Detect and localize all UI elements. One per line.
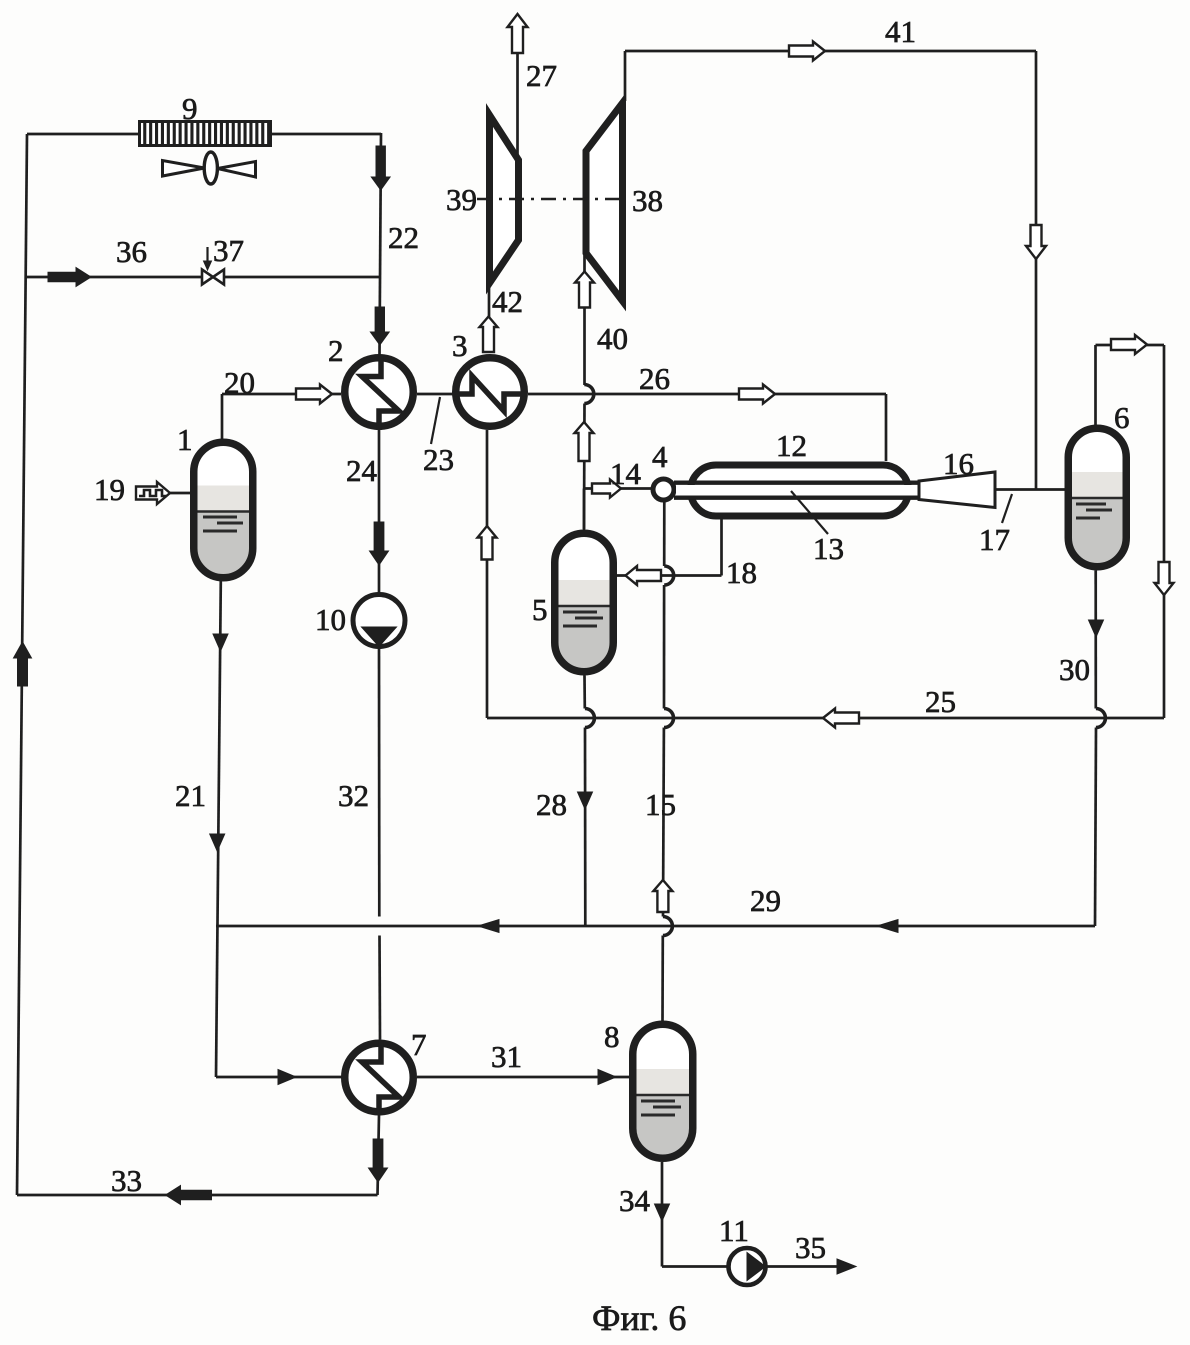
heat exchanger 7 zigzag	[362, 1040, 399, 1115]
wire line 17	[995, 488, 1066, 491]
wire top to condenser 9	[27, 133, 139, 136]
wire between exchangers 2 and 3	[417, 393, 453, 396]
label 23	[423, 442, 454, 477]
svg-text:6: 6	[1114, 400, 1130, 435]
arrow down on line 21 lower	[210, 834, 225, 851]
label 11	[719, 1213, 749, 1248]
wire line 18 (ejector suction)	[617, 516, 722, 576]
arrow left line 25	[823, 709, 859, 728]
hop line 15 over line 25	[664, 709, 674, 728]
svg-text:2: 2	[328, 333, 344, 368]
wire left return riser (33 to condenser 9)	[17, 134, 27, 1195]
arrow left line 29 b	[877, 920, 898, 933]
vessel 6 level dashes	[1076, 504, 1112, 518]
wire line 19	[170, 492, 191, 495]
pump 10	[353, 595, 405, 647]
svg-text:32: 32	[338, 778, 369, 813]
wire line 22 (to heat exchanger 2)	[380, 133, 382, 355]
hop line 15 over line 18	[664, 566, 674, 585]
svg-text:13: 13	[813, 531, 844, 566]
svg-text:17: 17	[979, 522, 1010, 557]
label 34	[619, 1183, 651, 1218]
wire line 35	[765, 1265, 853, 1268]
svg-text:24: 24	[346, 453, 378, 488]
vessel 6 (separator)	[1068, 428, 1126, 567]
label 39	[446, 182, 477, 217]
vessel 1 (separator)	[194, 442, 253, 578]
wire line 36 (bypass)	[26, 276, 380, 279]
wire line 20	[222, 394, 341, 441]
svg-text:7: 7	[411, 1027, 427, 1062]
ejector chamber 12	[691, 465, 909, 516]
svg-text:37: 37	[213, 233, 244, 268]
label 33	[111, 1163, 142, 1198]
label 15	[645, 787, 676, 822]
caption	[592, 1298, 686, 1338]
label 22	[388, 220, 419, 255]
fan of condenser 9	[163, 152, 256, 184]
arrow right vessel 6 top	[1111, 335, 1147, 354]
label 23 leader	[431, 397, 440, 444]
svg-text:Фиг. 6: Фиг. 6	[592, 1298, 686, 1338]
wire line 32 (pump 10 to HX7)	[379, 647, 380, 1040]
arrow up on left riser	[14, 642, 32, 686]
arrow down on line 22 lower	[370, 307, 389, 345]
arrow right line 41	[789, 42, 825, 61]
label 16	[943, 446, 974, 481]
arrow down on line 24	[370, 522, 389, 565]
svg-text:42: 42	[492, 284, 523, 319]
svg-text:36: 36	[116, 234, 147, 269]
label 28	[536, 787, 567, 822]
svg-text:31: 31	[491, 1039, 522, 1074]
label 21	[175, 778, 206, 813]
arrow right into HX7	[278, 1070, 296, 1085]
svg-text:38: 38	[632, 183, 663, 218]
label 31	[491, 1039, 522, 1074]
label 38	[632, 183, 663, 218]
svg-text:3: 3	[452, 328, 468, 363]
label 37	[213, 233, 244, 268]
svg-text:15: 15	[645, 787, 676, 822]
wire line 28 (vessel 5 down)	[583, 676, 586, 927]
ejector mixing tube 13	[674, 483, 919, 498]
shaft line (dash-dot) between turbines 39 and 38	[477, 198, 620, 200]
wire line 33 (HX7 down and left)	[17, 1115, 379, 1195]
wire line 24 (HX2 to pump 10)	[378, 430, 381, 593]
arrow up line 15	[653, 880, 672, 912]
vessel 1 level dashes	[203, 517, 243, 531]
label 26	[639, 361, 670, 396]
arrow up line 42	[480, 317, 498, 353]
label 18	[726, 555, 757, 590]
label 17	[979, 522, 1010, 557]
wire into HX7 from line 21	[216, 1076, 342, 1079]
svg-text:35: 35	[795, 1230, 826, 1265]
svg-text:11: 11	[719, 1213, 749, 1248]
arrow down line 41 riser	[1026, 225, 1046, 259]
label 25	[925, 684, 956, 719]
hop line 30 over line 25	[1096, 709, 1106, 728]
label 41	[885, 14, 916, 49]
svg-text:12: 12	[776, 428, 807, 463]
arrow right line 14	[592, 480, 621, 498]
valve 37	[202, 270, 224, 285]
svg-text:27: 27	[526, 58, 557, 93]
label 5	[532, 592, 548, 627]
label 20	[224, 365, 255, 400]
label 2	[328, 333, 344, 368]
svg-text:10: 10	[315, 602, 346, 637]
svg-text:16: 16	[943, 446, 974, 481]
svg-text:23: 23	[423, 442, 454, 477]
label 14	[610, 456, 642, 491]
svg-text:33: 33	[111, 1163, 142, 1198]
svg-text:8: 8	[604, 1019, 620, 1054]
label 29	[750, 883, 781, 918]
arrow up line 27	[508, 14, 528, 53]
heat exchanger 7	[345, 1043, 414, 1112]
heat exchanger 3 zigzag	[453, 376, 527, 411]
vessel 8 level dashes	[641, 1101, 681, 1115]
condenser 9 (air-cooled, hatched)	[140, 122, 271, 146]
label 30	[1059, 652, 1090, 687]
turbine 39	[490, 115, 519, 283]
label 35	[795, 1230, 826, 1265]
label 6	[1114, 400, 1130, 435]
pump 11	[729, 1248, 766, 1285]
arrow up on HX3 return	[478, 526, 497, 560]
arrow left line 33	[166, 1186, 212, 1205]
arrow down line 28	[578, 792, 593, 809]
svg-text:5: 5	[532, 592, 548, 627]
arrow left line 29 a	[478, 920, 499, 933]
wire line 41 (turbine 38 to vessel 6 side)	[625, 51, 1036, 489]
heat exchanger 2	[345, 358, 414, 427]
wire line 26 (to ejector 12)	[528, 394, 886, 461]
vessel 8 (separator)	[633, 1024, 693, 1158]
hop line 40 over line 26	[584, 385, 594, 404]
label 32	[338, 778, 369, 813]
svg-text:29: 29	[750, 883, 781, 918]
feed arrow 19	[136, 482, 170, 504]
arrow down right riser	[1155, 562, 1174, 595]
wire line 42 (HX3 to turbine 39)	[488, 283, 491, 317]
svg-text:26: 26	[639, 361, 670, 396]
label 12	[776, 428, 807, 463]
svg-text:39: 39	[446, 182, 477, 217]
label 8	[604, 1019, 620, 1054]
svg-text:28: 28	[536, 787, 567, 822]
svg-text:25: 25	[925, 684, 956, 719]
wire line 34	[662, 1162, 728, 1267]
arrow down on line 22 upper	[371, 146, 390, 190]
label 9	[182, 91, 198, 126]
label 1	[177, 422, 193, 457]
svg-text:1: 1	[177, 422, 193, 457]
vessel 5 (separator)	[555, 533, 614, 672]
arrow right on line 26	[739, 385, 775, 404]
wire line 27 (turbine 39 exhaust)	[516, 53, 519, 159]
valve 37 actuator arrow	[204, 247, 212, 270]
hop line 28 over line 25	[585, 709, 595, 728]
vessel 5 level dashes	[563, 612, 603, 626]
svg-text:21: 21	[175, 778, 206, 813]
arrow down on line 21 upper	[213, 634, 228, 651]
arrow down line 34	[655, 1204, 670, 1221]
label 4	[652, 439, 668, 474]
arrow right line 31	[598, 1070, 616, 1085]
wire vessel 6 top loop	[1096, 345, 1165, 718]
arrow right on line 20	[296, 385, 332, 404]
wire line 15	[663, 500, 665, 1021]
svg-text:41: 41	[885, 14, 916, 49]
wire line 25	[487, 717, 1164, 720]
label 36	[116, 234, 147, 269]
svg-text:34: 34	[619, 1183, 651, 1218]
wire line 31 (HX7 to vessel 8)	[417, 1076, 630, 1079]
label 13 leader	[791, 491, 828, 534]
label 42	[492, 284, 523, 319]
wire line 29	[216, 925, 1095, 928]
wire line 21 (vessel 1 down)	[216, 581, 221, 1077]
hop line 15 over line 29	[663, 917, 673, 936]
label 19	[94, 472, 125, 507]
arrow left line 18	[626, 566, 662, 585]
wire line 25 left riser to HX3	[486, 430, 489, 718]
label 24	[346, 453, 378, 488]
arrow right on line 36	[48, 268, 91, 287]
label 10	[315, 602, 346, 637]
svg-text:19: 19	[94, 472, 125, 507]
heat exchanger 3	[456, 358, 525, 427]
ejector diffuser 16	[919, 472, 995, 508]
label 7	[411, 1027, 427, 1062]
label 13	[813, 531, 844, 566]
arrow up line 40 mid	[575, 422, 594, 461]
svg-text:9: 9	[182, 91, 198, 126]
svg-text:20: 20	[224, 365, 255, 400]
arrow down line 30	[1089, 620, 1104, 637]
label 17 leader	[1002, 494, 1012, 523]
arrow right line 35	[837, 1259, 856, 1274]
wire line 30 (vessel 6 down)	[1095, 571, 1096, 927]
arrow up line 40 at turbine	[575, 272, 594, 308]
label 27	[526, 58, 557, 93]
svg-text:30: 30	[1059, 652, 1090, 687]
ejector nozzle inlet 4	[653, 479, 674, 500]
turbine 38	[586, 103, 623, 301]
svg-text:14: 14	[610, 456, 642, 491]
svg-text:4: 4	[652, 439, 668, 474]
svg-text:18: 18	[726, 555, 757, 590]
heat exchanger 2 zigzag	[362, 355, 399, 430]
label 40	[597, 321, 628, 356]
svg-text:40: 40	[597, 321, 628, 356]
wire condenser 9 to line 22	[271, 133, 382, 136]
label 3	[452, 328, 468, 363]
wire line 14	[584, 487, 652, 490]
svg-text:22: 22	[388, 220, 419, 255]
wire vessel 5 top pipe	[583, 489, 586, 532]
wire line 40 (vessel 5 to turbine 38)	[583, 253, 586, 529]
arrow down HX7 outlet	[369, 1139, 388, 1182]
